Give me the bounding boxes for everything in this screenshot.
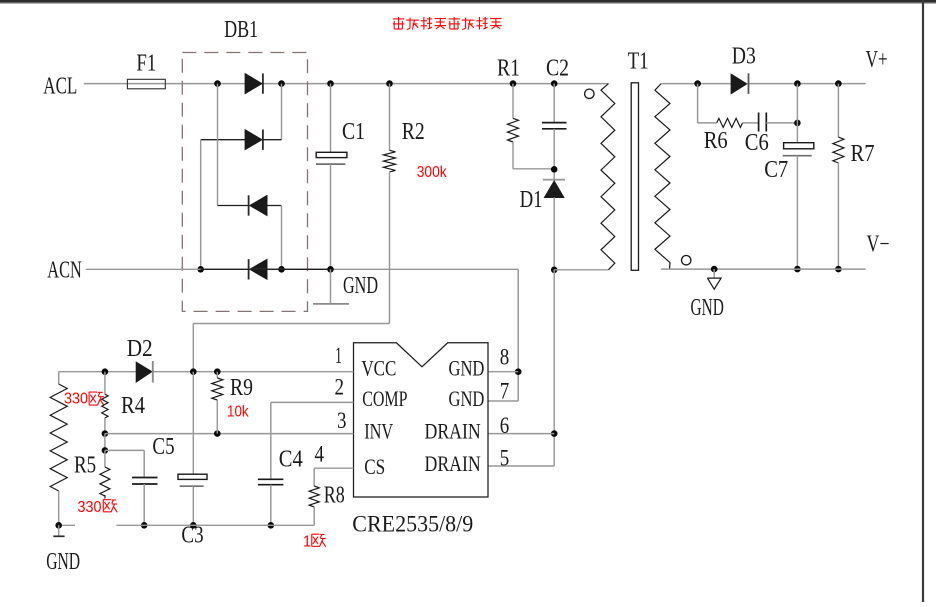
bridge DB1 dashed outline: [182, 53, 307, 312]
wire C7 top lead: [796, 84, 798, 143]
wire left resistor bottom lead: [58, 491, 60, 525]
junction R1/C2/D1 node: [551, 166, 558, 173]
resistor R9: [212, 378, 223, 400]
wire R7 top lead: [837, 84, 839, 138]
svg-text:330: 330: [64, 390, 88, 407]
wire R9 top lead: [216, 372, 218, 378]
wire R6 left lead: [698, 122, 717, 124]
svg-text:4: 4: [315, 442, 325, 467]
svg-text:CS: CS: [364, 454, 385, 479]
svg-text:R2: R2: [402, 119, 425, 145]
wire R5 bottom stub: [104, 495, 106, 499]
svg-text:D2: D2: [127, 336, 153, 362]
wire ACN rail: [86, 268, 518, 270]
junction V+ at R7: [835, 80, 842, 87]
wire bottom rail left stub: [59, 524, 75, 526]
svg-text:8: 8: [500, 345, 510, 370]
wire R4 to R5 vertical: [104, 434, 106, 451]
wire R6 branch vertical: [697, 84, 699, 123]
wire drain node down to pins 6 and 5: [553, 270, 555, 466]
svg-text:1: 1: [303, 534, 311, 551]
svg-text:7: 7: [500, 379, 510, 404]
svg-text:T1: T1: [628, 49, 649, 75]
svg-text:R9: R9: [230, 375, 253, 401]
resistor R8: [309, 486, 319, 507]
wire R7 bottom lead: [837, 163, 839, 269]
svg-text:10k: 10k: [227, 404, 249, 421]
wire C5 bottom lead: [143, 484, 145, 525]
resistor R4: [102, 394, 108, 418]
junction on ACL rail at bridge left: [214, 80, 221, 87]
wire CS net: [314, 467, 353, 469]
resistor R1: [508, 118, 519, 142]
resistor R2: [384, 150, 396, 172]
svg-text:R1: R1: [497, 56, 520, 82]
junction at R6 branch: [694, 80, 701, 87]
resistor R6: [717, 118, 743, 127]
svg-text:ACN: ACN: [47, 257, 82, 283]
wire C6 to C7 node: [766, 122, 797, 124]
svg-text:ACL: ACL: [43, 74, 77, 100]
diode D2: [136, 362, 151, 382]
wire ACN drop to IC GND pins: [517, 269, 519, 401]
page right border: [922, 0, 924, 602]
svg-text:GND: GND: [46, 549, 80, 575]
wire VCC left corner down: [58, 372, 60, 384]
junction INV at R9 bottom: [214, 430, 221, 437]
ground bar near C1: [313, 303, 349, 305]
junction INV at R4/R5: [102, 430, 109, 437]
svg-text:C5: C5: [152, 434, 174, 460]
svg-text:6: 6: [500, 413, 510, 438]
svg-text:GND: GND: [449, 386, 485, 411]
wire bridge right vertical lower: [281, 206, 283, 270]
svg-text:GND: GND: [449, 355, 485, 380]
capacitor C5: [132, 477, 158, 479]
junction ACN at bridge far-left: [197, 266, 204, 273]
svg-text:300k: 300k: [417, 164, 447, 181]
capacitor C3: [178, 474, 207, 479]
junction V- at R7: [835, 266, 842, 273]
junction VCC at C3 column: [190, 368, 197, 375]
wire R5 top lead: [104, 450, 106, 467]
fuse F1: [127, 79, 165, 89]
resistor R5: [100, 467, 110, 496]
svg-text:GND: GND: [343, 273, 378, 299]
junction V- at ground: [711, 266, 718, 273]
svg-text:R8: R8: [324, 483, 345, 509]
svg-text:COMP: COMP: [362, 386, 407, 411]
wire C2 top lead: [553, 84, 555, 122]
capacitor C6: [758, 113, 760, 132]
wire R2 bottom route to VCC node: [389, 172, 391, 324]
wire COMP net: [271, 401, 354, 403]
diode D3: [731, 74, 746, 93]
wire R1 top lead: [512, 84, 514, 119]
resistor R7: [833, 137, 844, 163]
svg-text:INV: INV: [364, 419, 393, 444]
junction V- at C7: [794, 266, 801, 273]
junction ACL at R1: [510, 80, 517, 87]
wire R4 top lead: [104, 372, 106, 395]
wire ACL rail: [84, 83, 609, 85]
svg-text:V−: V−: [867, 232, 890, 258]
wire V- rail: [661, 268, 866, 270]
page top border: [0, 0, 936, 3]
junction R5/C5 node: [102, 447, 109, 454]
svg-text:C6: C6: [745, 130, 769, 156]
junction ACN at bridge right: [278, 266, 285, 273]
wire R8 bottom lead: [313, 507, 315, 525]
wire C1 bottom lead to ACN: [330, 164, 332, 269]
capacitor C2: [542, 122, 567, 124]
junction V+ at C7: [794, 80, 801, 87]
svg-text:R5: R5: [74, 453, 96, 479]
wire C2 bottom lead: [553, 129, 555, 179]
transformer T1 primary winding: [601, 84, 615, 270]
op-amp U1 CRE2535 body: [354, 343, 489, 497]
junction bottom rail at ground: [55, 522, 62, 529]
wire VCC net horizontal: [59, 371, 137, 373]
svg-text:5: 5: [500, 446, 510, 471]
capacitor C4: [258, 478, 284, 480]
svg-text:C1: C1: [342, 119, 365, 145]
wire bridge far-left vertical from second row to ACN: [200, 140, 202, 270]
wire R1 bottom to C2 node: [512, 142, 514, 169]
wire R4 bottom lead: [104, 418, 106, 434]
svg-text:C2: C2: [546, 56, 569, 82]
wire INV net horizontal: [105, 433, 354, 435]
wire C1 top lead: [330, 84, 332, 153]
transformer T1 secondary phase dot: [682, 256, 691, 265]
junction ACL at C1: [327, 80, 334, 87]
diode DB1-A (top, on ACL line): [245, 74, 262, 94]
junction at pin 6 wire: [551, 430, 558, 437]
svg-text:GND: GND: [691, 295, 724, 321]
junction ACL at R2: [386, 80, 393, 87]
svg-text:R4: R4: [121, 393, 145, 419]
wire D1 anode down to drain node: [553, 197, 555, 269]
svg-text:DB1: DB1: [224, 17, 258, 43]
junction drain node: [551, 267, 558, 274]
junction bottom rail at C3: [190, 522, 197, 529]
junction VCC at R9: [214, 368, 221, 375]
svg-text:DRAIN: DRAIN: [425, 419, 481, 444]
transformer T1 secondary winding: [655, 84, 670, 270]
svg-text:VCC: VCC: [361, 355, 396, 380]
junction snubber at C7 column: [794, 120, 801, 127]
junction bottom rail at C5: [141, 522, 148, 529]
transformer T1 primary phase dot: [585, 89, 594, 98]
svg-text:C4: C4: [279, 447, 303, 473]
watermark red text huang cheng mi ji bu de zhuan mai: [393, 18, 404, 20]
capacitor C1: [316, 152, 347, 157]
wire pin 8 stub: [488, 371, 518, 373]
capacitor C7: [784, 143, 814, 149]
wire C4 bottom lead: [270, 485, 272, 526]
svg-text:F1: F1: [136, 50, 156, 76]
svg-text:CRE2535/8/9: CRE2535/8/9: [352, 511, 473, 536]
wire pin 6 stub: [488, 433, 554, 435]
transformer T1 core: [631, 83, 638, 270]
svg-text:C7: C7: [764, 157, 788, 183]
svg-text:3: 3: [337, 408, 347, 433]
svg-text:D3: D3: [732, 44, 756, 70]
wire R2 top lead: [389, 84, 391, 151]
junction ACN at C1: [327, 266, 334, 273]
wire R9 bottom lead: [216, 400, 218, 434]
svg-text:R6: R6: [704, 128, 728, 154]
wire C3 top lead from VCC junction: [192, 372, 194, 475]
diode DB1-D (bottom, on ACN line): [250, 260, 267, 280]
wire C3 bottom lead: [192, 486, 194, 525]
svg-text:V+: V+: [866, 47, 888, 73]
svg-text:D1: D1: [520, 187, 543, 213]
diode D1 (pointing up): [543, 179, 565, 181]
junction on ACL rail at bridge right: [278, 80, 285, 87]
resistor left startup (unlabeled): [50, 384, 67, 491]
wire R6 to C6: [743, 122, 759, 124]
wire C1 ground stub: [330, 269, 332, 303]
wire bridge left vertical from ACL to third row: [217, 84, 219, 206]
wire bottom rail main: [116, 524, 314, 526]
wire bridge right vertical upper: [281, 84, 283, 140]
junction at pin 8 wire: [515, 368, 522, 375]
svg-text:2: 2: [335, 375, 345, 400]
svg-text:330: 330: [78, 499, 102, 516]
diode DB1-C (third row, pointing left): [218, 205, 249, 207]
diode DB1-B (second row): [201, 139, 246, 141]
junction ACL at C2: [551, 80, 558, 87]
svg-text:DRAIN: DRAIN: [425, 451, 481, 476]
wire C7 bottom lead: [796, 156, 798, 269]
wire R5 node to C5: [105, 449, 144, 451]
junction bottom rail at C4: [268, 522, 275, 529]
junction VCC at R4: [102, 368, 109, 375]
wire secondary top rail to V+: [661, 83, 731, 85]
ground symbol bottom-left: [58, 525, 60, 536]
ground symbol secondary: [713, 269, 715, 278]
svg-text:R7: R7: [851, 141, 875, 167]
wire drain node to primary bottom: [554, 269, 608, 271]
svg-text:1: 1: [335, 343, 342, 368]
